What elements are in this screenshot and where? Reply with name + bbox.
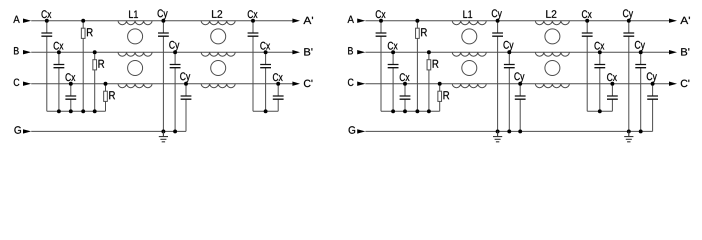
resistor R discharge phase B (right) (427, 50, 438, 111)
capacitor Cx input phase B (left) (54, 42, 65, 112)
arrow input C (right) (357, 82, 365, 86)
capacitor Cy mid phase A (left) (158, 9, 169, 131)
arrow input G (right) (357, 129, 365, 133)
arrow input C (left) (23, 82, 31, 86)
inductor winding L2 phase C (left) (201, 84, 235, 88)
junction Cy-C to ground (right) (518, 129, 522, 133)
capacitor Cx output phase C (right) (607, 73, 618, 111)
ground symbol mid (left) (159, 131, 168, 141)
junction input star bus (left) x=70.8 (69, 109, 73, 113)
wire line A (left) (31, 20, 293, 22)
junction Cy-out-B to ground (right) (639, 129, 643, 133)
capacitor Cy mid phase A (right) (492, 9, 503, 131)
capacitor Cx output phase A (right) (582, 10, 593, 111)
resistor R discharge phase A (right) (415, 19, 426, 112)
arrow output A' (right) (669, 19, 677, 23)
wire ground bus G (right) (365, 130, 652, 132)
arrow input B (left) (23, 50, 31, 54)
label L1 (right) (463, 11, 472, 19)
label port A' (left) (303, 17, 313, 24)
label port B' (left) (304, 48, 312, 55)
resistor R discharge phase A (left) (81, 19, 92, 112)
ground symbol mid (right) (493, 131, 502, 141)
label port G (left) (14, 126, 21, 133)
capacitor Cy mid phase B (left) (169, 41, 180, 132)
choke L1 core circles (left) (128, 29, 143, 44)
choke L2 core circles (right) (545, 29, 560, 44)
inductor winding L1 phase B (left) (118, 52, 152, 56)
inductor winding L2 phase B (right) (535, 52, 569, 56)
junction input star bus (right) x=405.0 (403, 109, 407, 113)
label port A' (right) (680, 17, 690, 24)
inductor winding L1 phase A (right) (452, 21, 486, 25)
inductor winding L1 phase C (left) (118, 84, 152, 88)
label port B (left) (14, 47, 19, 54)
label port C (right) (348, 79, 354, 86)
resistor R discharge phase C (right) (438, 82, 449, 112)
wire line B (right) (365, 51, 669, 53)
capacitor Cy output phase A (right) (623, 9, 634, 131)
arrow input G (left) (23, 129, 31, 133)
label port B' (right) (681, 48, 689, 55)
capacitor Cx input phase A (left) (41, 10, 52, 111)
inductor winding L2 phase A (left) (201, 21, 235, 25)
junction Cy-out-A to ground (right) (627, 129, 631, 133)
junction input star bus (left) x=94.7 (93, 109, 97, 113)
label L2 (right) (546, 10, 556, 18)
resistor R discharge phase B (left) (93, 50, 104, 111)
inductor winding L2 phase B (left) (201, 52, 235, 56)
label port A (left) (13, 16, 19, 23)
capacitor Cy mid phase C (right) (514, 72, 525, 131)
inductor winding L1 phase B (right) (452, 52, 486, 56)
capacitor Cx output phase C (left) (273, 73, 284, 111)
label port C (left) (14, 79, 20, 86)
junction Cy-A to ground (left) (161, 129, 165, 133)
inductor winding L2 phase A (right) (535, 21, 569, 25)
wire ground bus G (left) (31, 130, 186, 132)
resistor R discharge phase C (left) (104, 82, 115, 112)
wire line C (right) (365, 83, 669, 85)
capacitor Cy mid phase B (right) (503, 41, 514, 132)
label L2 (left) (212, 10, 222, 18)
junction input star bus (right) x=428.9 (427, 109, 431, 113)
wire line B (left) (31, 51, 293, 53)
arrow output C' (left) (292, 82, 300, 86)
choke L2 core circles (left) (211, 29, 226, 44)
capacitor Cy mid phase C (left) (180, 72, 191, 131)
capacitor Cx input phase C (right) (400, 73, 411, 111)
ground symbol output (right) (624, 131, 633, 141)
wire star-point bus of input Cx/R (left) (47, 110, 106, 112)
capacitor Cx output phase B (right) (594, 42, 605, 112)
capacitor Cx input phase C (left) (65, 73, 76, 111)
arrow output B' (left) (292, 50, 300, 54)
inductor winding L1 phase A (left) (118, 21, 152, 25)
junction output star bus (right) (598, 109, 602, 113)
label port G (right) (349, 126, 356, 133)
arrow input A (left) (23, 19, 31, 23)
junction Cy-A to ground (right) (496, 129, 500, 133)
junction input star bus (left) x=83.2 (81, 109, 85, 113)
junction Cy-B to ground (right) (507, 129, 511, 133)
junction input star bus (right) x=417.4 (415, 109, 419, 113)
wire star-point bus of output Cx (right) (587, 110, 612, 112)
arrow output A' (left) (292, 19, 300, 23)
junction input star bus (right) x=393.09999999999997 (391, 109, 395, 113)
junction Cy-B to ground (left) (173, 129, 177, 133)
wire star-point bus of output Cx (left) (253, 110, 278, 112)
label port A (right) (348, 16, 354, 23)
arrow output C' (right) (669, 82, 677, 86)
arrow input B (right) (357, 50, 365, 54)
wire star-point bus of input Cx/R (right) (381, 110, 440, 112)
junction input star bus (left) x=58.9 (57, 109, 61, 113)
label port C' (left) (304, 80, 312, 87)
wire line A (right) (365, 20, 669, 22)
arrow input A (right) (357, 19, 365, 23)
capacitor Cx input phase B (right) (388, 42, 399, 112)
label port C' (right) (681, 80, 689, 87)
label L1 (left) (129, 11, 138, 19)
capacitor Cy output phase C (right) (647, 72, 658, 131)
label port B (right) (348, 47, 353, 54)
capacitor Cx output phase A (left) (248, 10, 259, 111)
choke L1 core circles (right) (462, 29, 477, 44)
arrow output B' (right) (669, 50, 677, 54)
inductor winding L2 phase C (right) (535, 84, 569, 88)
wire line C (left) (31, 83, 293, 85)
capacitor Cy output phase B (right) (635, 41, 646, 132)
capacitor Cx output phase B (left) (260, 42, 271, 112)
inductor winding L1 phase C (right) (452, 84, 486, 88)
capacitor Cx input phase A (right) (376, 10, 387, 111)
junction output star bus (left) (264, 109, 268, 113)
